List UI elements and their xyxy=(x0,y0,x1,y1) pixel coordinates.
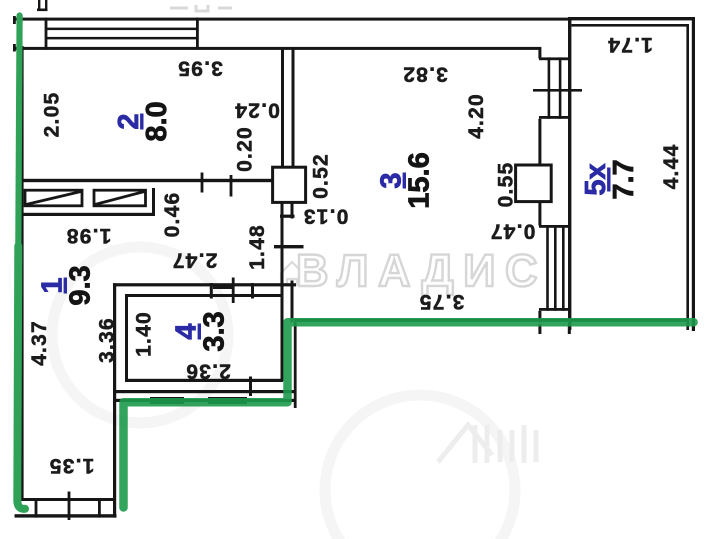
svg-text:3.82: 3.82 xyxy=(402,63,448,86)
room2 label xyxy=(113,101,173,141)
svg-text:1.98: 1.98 xyxy=(66,224,112,247)
square S2 vent xyxy=(516,165,552,202)
niche window top xyxy=(20,498,116,501)
niche window divider 3 xyxy=(98,498,101,518)
flat bottom wall left part under green xyxy=(116,399,295,402)
room3 label xyxy=(376,152,436,208)
window RW1 vertical b xyxy=(559,57,562,118)
faint gray marks top xyxy=(170,5,232,11)
svg-text:3.75: 3.75 xyxy=(419,290,465,313)
tick 1.48 xyxy=(274,245,304,248)
closet C1 xyxy=(25,190,82,206)
svg-text:15.6: 15.6 xyxy=(404,152,436,208)
svg-text:ВЛАДИС: ВЛАДИС xyxy=(296,245,547,296)
room4 label xyxy=(171,311,231,351)
room4 door leaf bar xyxy=(213,285,233,289)
right wall inner segment S2-window2 xyxy=(538,202,541,226)
interior wall lineA lower xyxy=(281,202,284,381)
room4 bottom tick xyxy=(249,377,252,397)
tick 0.13 xyxy=(280,215,295,218)
window RW2 top cap xyxy=(539,225,571,228)
tick top-left end upper xyxy=(13,16,16,24)
room4 door jamb right xyxy=(251,283,254,299)
wall room1/room2 xyxy=(22,179,273,182)
window RW1 top cap xyxy=(539,57,571,60)
room4 door jamb left xyxy=(210,283,213,299)
interior wall lineB upper xyxy=(292,49,295,168)
svg-text:0.13: 0.13 xyxy=(303,205,349,228)
niche window divider 1 xyxy=(35,498,38,518)
loggia top inner xyxy=(572,24,689,27)
tick top-left end lower xyxy=(13,44,16,52)
svg-text:4.37: 4.37 xyxy=(28,320,51,366)
green highlight path bottom xyxy=(124,322,694,507)
window RW1 bottom cap xyxy=(539,116,571,119)
svg-text:1.40: 1.40 xyxy=(133,311,156,357)
svg-text:3.95: 3.95 xyxy=(177,57,223,80)
window W1 right cap xyxy=(196,18,199,50)
svg-text:9.3: 9.3 xyxy=(65,265,97,305)
wall left xyxy=(21,46,24,500)
svg-text:1.74: 1.74 xyxy=(607,33,653,56)
svg-text:0.20: 0.20 xyxy=(234,126,257,172)
svg-text:4.20: 4.20 xyxy=(465,93,488,139)
room5 label xyxy=(580,159,640,199)
svg-text:0.55: 0.55 xyxy=(495,162,518,208)
closet C2 xyxy=(94,190,146,206)
svg-text:0.47: 0.47 xyxy=(490,220,536,243)
svg-text:3.36: 3.36 xyxy=(96,317,119,363)
room4 inner bottom xyxy=(125,379,283,382)
right wall inner stub below green xyxy=(538,324,541,334)
room4 top cross tick xyxy=(232,278,235,304)
tick crossing window RW1 xyxy=(533,89,582,92)
svg-text:7.7: 7.7 xyxy=(608,159,640,199)
window RW2 bottom cap xyxy=(539,308,571,311)
window RW2 vertical b xyxy=(554,225,557,311)
right wall inner segment window1-S2 xyxy=(538,119,541,166)
right wall inner segment below window2 xyxy=(538,311,541,323)
svg-text:1.48: 1.48 xyxy=(246,224,269,270)
loggia left wall stub below green xyxy=(568,324,571,334)
svg-text:0.52: 0.52 xyxy=(310,153,333,199)
closet block bottom xyxy=(21,213,155,216)
room4 inner top xyxy=(125,294,283,297)
room3 bottom wall xyxy=(294,319,689,322)
loggia right outer xyxy=(692,17,695,331)
niche window bottom xyxy=(15,514,117,517)
loggia right inner xyxy=(686,24,689,330)
watermark house icon xyxy=(281,262,303,285)
faint avito watermark blobs xyxy=(52,247,515,539)
svg-text:2.47: 2.47 xyxy=(172,249,218,272)
window RW1 vertical a xyxy=(548,57,551,118)
window RW2 vertical a xyxy=(546,225,549,311)
window W1 left cap xyxy=(45,18,48,50)
svg-text:3.3: 3.3 xyxy=(199,311,231,351)
tick on wall at x201 xyxy=(201,173,204,193)
interior wall lineB below square xyxy=(291,202,294,219)
room4 outer top xyxy=(113,283,296,286)
svg-text:1.35: 1.35 xyxy=(49,454,95,477)
loggia left wall xyxy=(568,17,571,330)
room4 outer bottom xyxy=(113,390,296,393)
wall top inner xyxy=(14,47,541,50)
interior wall lower stub to bottom xyxy=(294,322,297,408)
svg-text:0.24: 0.24 xyxy=(234,99,280,122)
window W1 line3 xyxy=(46,37,198,40)
svg-text:8.0: 8.0 xyxy=(141,101,173,141)
room4 outer left / niche right wall xyxy=(113,283,116,517)
room1 label xyxy=(37,265,97,305)
svg-text:0.46: 0.46 xyxy=(161,192,184,238)
interior wall lineA upper xyxy=(281,49,284,168)
wall top outer xyxy=(13,18,570,21)
window RW2 vertical c xyxy=(562,225,565,311)
room4 inner left xyxy=(125,294,128,382)
interior wall lineB door jamb lower xyxy=(291,281,294,323)
staple mark top-left xyxy=(38,0,40,11)
niche window divider 2 long tick xyxy=(68,492,71,521)
svg-text:2.05: 2.05 xyxy=(41,92,64,138)
window W1 line2 xyxy=(46,28,198,31)
right wall inner segment above window1 xyxy=(538,47,541,59)
green highlight line left xyxy=(18,16,19,251)
closet block right wall xyxy=(152,188,155,216)
svg-text:2.36: 2.36 xyxy=(185,360,231,383)
tick on wall at x230 xyxy=(230,175,233,197)
square S1 vent xyxy=(273,167,306,202)
svg-text:4.44: 4.44 xyxy=(660,144,683,190)
loggia top outer xyxy=(568,17,695,20)
faint watermark cluster bottom right xyxy=(438,425,536,463)
